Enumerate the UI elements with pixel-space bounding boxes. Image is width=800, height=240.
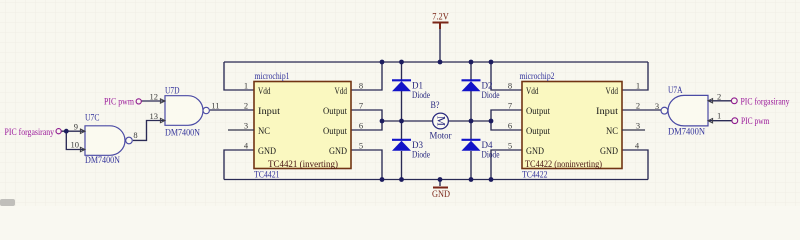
diode D1 xyxy=(392,80,411,91)
nand gate U7A output bubble xyxy=(661,107,668,114)
diode D4 xyxy=(462,140,481,151)
wire D3 anode to GND bus xyxy=(401,151,403,180)
svg-text:U7D: U7D xyxy=(165,86,180,96)
svg-text:1: 1 xyxy=(717,111,721,121)
svg-text:PIC pwm: PIC pwm xyxy=(104,97,134,107)
port circle PIC forgasirany right xyxy=(731,98,737,104)
svg-text:TC4422 (noninverting): TC4422 (noninverting) xyxy=(525,159,602,169)
svg-text:5: 5 xyxy=(508,140,512,150)
junction D2-D4 at motor row xyxy=(469,119,474,124)
svg-text:DM7400N: DM7400N xyxy=(85,156,120,166)
svg-text:microchip2: microchip2 xyxy=(520,72,555,82)
svg-text:13: 13 xyxy=(150,111,159,121)
wire D4 anode to GND bus xyxy=(470,151,472,180)
microchip2 sheet symbol box TC4422 xyxy=(522,82,622,169)
nand U7A input pin 2 arrow xyxy=(708,99,713,103)
svg-text:Input: Input xyxy=(258,106,281,116)
svg-text:Diode: Diode xyxy=(482,149,500,159)
nand U7D input pin 13 arrow xyxy=(160,118,165,122)
svg-text:8: 8 xyxy=(133,130,137,140)
microchip2 pin 3 NC stub xyxy=(622,129,645,131)
wire U7A pin 1 to port xyxy=(708,120,732,122)
microchip1 sheet symbol box TC4421 xyxy=(254,82,351,169)
svg-text:GND: GND xyxy=(526,146,544,156)
svg-text:7: 7 xyxy=(508,100,512,110)
svg-text:M: M xyxy=(435,116,447,126)
svg-text:8: 8 xyxy=(508,80,512,90)
wire motor right segment xyxy=(448,120,491,122)
nand gate U7D output bubble xyxy=(203,107,209,113)
junction chip2 GND at bottom bus xyxy=(489,177,494,182)
svg-text:Diode: Diode xyxy=(412,149,430,159)
svg-text:1: 1 xyxy=(244,80,248,90)
svg-text:12: 12 xyxy=(150,91,159,101)
svg-text:GND: GND xyxy=(258,146,276,156)
junction chip1 GND at bottom bus xyxy=(380,177,385,182)
svg-text:Motor: Motor xyxy=(430,130,452,140)
motor B? circle xyxy=(433,113,449,129)
wire PIC forgasirany to U7C pin 9 xyxy=(61,130,84,132)
svg-text:TC4421: TC4421 xyxy=(254,170,280,180)
nand U7D input pin 12 arrow xyxy=(160,99,165,103)
diode D2 xyxy=(462,80,481,91)
ground symbol GND bar xyxy=(433,187,448,189)
wire motor left segment xyxy=(382,120,433,122)
nand gate U7D body xyxy=(165,96,203,126)
wire D1 cathode to Vdd bus xyxy=(401,62,403,80)
svg-text:NC: NC xyxy=(258,126,270,136)
svg-text:microchip1: microchip1 xyxy=(255,72,290,82)
nand gate U7C body xyxy=(85,126,125,156)
svg-text:TC4421 (inverting): TC4421 (inverting) xyxy=(268,159,338,169)
svg-text:TC4422: TC4422 xyxy=(522,170,548,180)
svg-text:8: 8 xyxy=(359,80,363,90)
junction D1-D3 at motor row xyxy=(399,119,404,124)
svg-text:3: 3 xyxy=(244,120,248,130)
wire chip2 pin1 Vdd wrap xyxy=(622,62,648,90)
svg-text:Vdd: Vdd xyxy=(258,86,271,96)
svg-text:2: 2 xyxy=(244,100,248,110)
wire U7A pin 2 to port xyxy=(708,100,732,102)
svg-text:11: 11 xyxy=(211,100,219,110)
wire chip2 pin4 GND wrap xyxy=(622,150,648,180)
wire chip2 output bracket pins 7-6 xyxy=(491,110,522,130)
nand gate U7C output bubble xyxy=(126,137,133,144)
svg-text:2: 2 xyxy=(636,100,640,110)
svg-text:DM7400N: DM7400N xyxy=(165,128,200,138)
wire 7.2V power stub xyxy=(439,27,441,62)
wire GND bottom bus xyxy=(224,179,648,181)
svg-text:B?: B? xyxy=(431,100,440,110)
svg-text:5: 5 xyxy=(359,140,363,150)
svg-text:U7C: U7C xyxy=(85,114,100,124)
wire D2 cathode to Vdd bus xyxy=(470,62,472,80)
wire D2 anode to motor row xyxy=(470,91,472,121)
wire chip1 pin1 Vdd wrap xyxy=(224,62,254,90)
microchip1 pin 3 NC stub xyxy=(228,129,254,131)
junction D2 cathode at top bus xyxy=(469,60,474,65)
svg-text:DM7400N: DM7400N xyxy=(668,127,705,137)
nand U7C input pin 9 arrow xyxy=(80,129,85,133)
svg-text:Output: Output xyxy=(526,126,550,136)
svg-text:2: 2 xyxy=(717,92,721,102)
svg-text:6: 6 xyxy=(359,120,363,130)
svg-text:PIC forgasirany: PIC forgasirany xyxy=(741,96,790,107)
screen artifact smudge bottom-left xyxy=(0,199,15,206)
port circle PIC forgasirany left xyxy=(56,129,61,134)
wire chip1 pin5 GND wrap xyxy=(351,150,382,180)
svg-text:3: 3 xyxy=(636,120,640,130)
svg-text:Vdd: Vdd xyxy=(335,86,348,96)
svg-text:7.2V: 7.2V xyxy=(432,12,449,22)
svg-text:7: 7 xyxy=(359,100,363,110)
svg-text:1: 1 xyxy=(636,80,640,90)
junction D4 anode at bottom bus xyxy=(469,177,474,182)
nand U7C input pin 10 arrow xyxy=(80,147,85,151)
wire chip1 output bracket pins 7-6 xyxy=(351,110,382,130)
svg-text:GND: GND xyxy=(600,146,618,156)
nand U7A input pin 1 arrow xyxy=(708,119,713,123)
junction chip1 Vdd at top bus xyxy=(380,60,385,65)
diode D3 xyxy=(392,140,411,151)
wire chip1 pin4 GND wrap xyxy=(224,150,254,180)
svg-text:PIC forgasirany: PIC forgasirany xyxy=(5,127,55,138)
svg-text:Diode: Diode xyxy=(482,90,500,100)
svg-text:6: 6 xyxy=(508,120,512,130)
port circle PIC pwm left xyxy=(136,99,141,104)
wire PIC pwm to U7D pin 12 xyxy=(142,100,165,102)
svg-text:Diode: Diode xyxy=(412,90,430,100)
port circle PIC pwm right xyxy=(732,118,738,124)
wire chip2 pin8 Vdd wrap xyxy=(491,62,522,90)
wire D4 cathode to motor row xyxy=(470,121,472,140)
junction chip2 Vdd at top bus xyxy=(489,60,494,65)
junction chip1 outputs at motor row xyxy=(380,119,385,124)
svg-text:Vdd: Vdd xyxy=(606,86,619,96)
nand gate U7A body xyxy=(668,95,708,126)
power port 7.2V bar xyxy=(433,23,449,30)
svg-text:Output: Output xyxy=(323,126,347,136)
wire D3 cathode to motor row xyxy=(401,121,403,140)
svg-text:3: 3 xyxy=(655,101,659,111)
wire D1 anode to motor row xyxy=(401,91,403,121)
svg-text:Input: Input xyxy=(596,106,619,116)
svg-text:9: 9 xyxy=(74,121,78,131)
svg-text:GND: GND xyxy=(329,146,347,156)
wire U7C pin 10 branch xyxy=(66,131,84,149)
junction D3 anode at bottom bus xyxy=(399,177,404,182)
junction D1 cathode at top bus xyxy=(399,60,404,65)
junction U7C input split xyxy=(64,129,69,134)
svg-text:PIC pwm: PIC pwm xyxy=(741,117,770,127)
wire U7C output to U7D pin 13 xyxy=(133,121,164,141)
svg-text:Vdd: Vdd xyxy=(526,86,539,96)
junction GND stub at bottom bus xyxy=(438,177,443,182)
svg-text:U7A: U7A xyxy=(668,86,683,96)
wire GND power stub xyxy=(439,180,441,187)
wire U7D output to chip1 pin2 xyxy=(210,109,254,111)
svg-text:GND: GND xyxy=(432,190,450,200)
svg-text:Output: Output xyxy=(323,106,347,116)
svg-text:NC: NC xyxy=(606,126,618,136)
wire chip2 pin5 GND wrap xyxy=(491,150,522,180)
svg-text:Output: Output xyxy=(526,106,550,116)
wire chip2 pin2 to U7A output xyxy=(622,109,661,111)
wire Vdd top bus xyxy=(224,61,648,63)
wire chip1 pin8 Vdd wrap xyxy=(351,62,382,90)
junction 7.2V at top bus xyxy=(438,60,443,65)
svg-text:10: 10 xyxy=(71,139,80,149)
junction chip2 outputs at motor row xyxy=(489,119,494,124)
